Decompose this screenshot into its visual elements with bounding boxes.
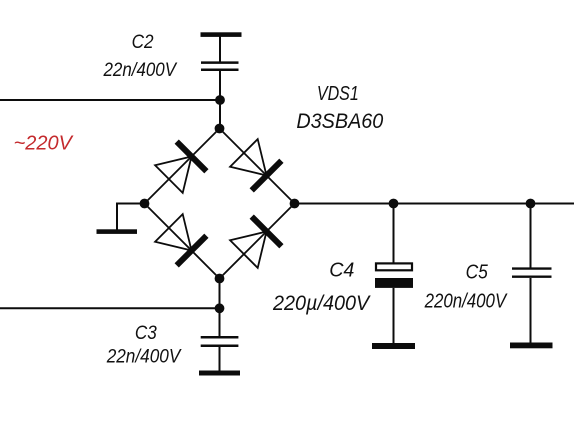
svg-text:C4: C4 bbox=[329, 260, 354, 282]
diode D2 (top vertex to right vertex) bbox=[220, 129, 295, 204]
wire bridge bottom to AC junction bbox=[219, 279, 221, 337]
ground bar (left) bbox=[97, 229, 138, 234]
capacitor C5 bbox=[512, 269, 552, 277]
diode D4 (bottom vertex to right vertex) bbox=[220, 204, 295, 279]
node bridge right vertex bbox=[290, 199, 300, 209]
capacitor C4 (electrolytic, plus plate outline) bbox=[375, 263, 413, 288]
svg-text:C2: C2 bbox=[132, 31, 154, 53]
wire AC bottom line bbox=[0, 307, 220, 309]
svg-text:C3: C3 bbox=[135, 322, 157, 344]
svg-text:22n/400V: 22n/400V bbox=[106, 346, 182, 368]
diode D3 (left vertex to bottom vertex) bbox=[145, 204, 220, 279]
wire left vertex to ground bbox=[117, 204, 145, 231]
wire C4 top lead bbox=[393, 204, 395, 263]
wire AC top line bbox=[0, 99, 220, 101]
node bridge left vertex bbox=[140, 199, 150, 209]
diode D1 (left vertex to top vertex) bbox=[145, 129, 220, 204]
svg-text:220µ/400V: 220µ/400V bbox=[272, 292, 371, 315]
wire C5 top lead bbox=[530, 204, 532, 268]
svg-text:VDS1: VDS1 bbox=[317, 83, 359, 105]
wire C2 bottom lead bbox=[219, 71, 221, 130]
node junction C4 bbox=[389, 199, 399, 209]
ground bar (below C4) bbox=[372, 343, 415, 349]
wire C2 top lead bbox=[219, 36, 221, 62]
node junction C5 bbox=[526, 199, 536, 209]
terminal bar (top, above C2) bbox=[201, 32, 242, 37]
ground bar (below C3) bbox=[199, 371, 240, 376]
svg-text:22n/400V: 22n/400V bbox=[103, 59, 178, 81]
capacitor C3 bbox=[201, 337, 239, 345]
wire C3 bottom lead bbox=[219, 347, 221, 371]
svg-text:220n/400V: 220n/400V bbox=[424, 291, 508, 313]
wire C5 bottom lead bbox=[530, 278, 532, 343]
svg-text:~220V: ~220V bbox=[14, 131, 75, 154]
node bridge top vertex bbox=[215, 124, 225, 134]
capacitor C2 bbox=[201, 63, 239, 70]
svg-text:C5: C5 bbox=[466, 261, 489, 284]
ground bar (below C5) bbox=[510, 343, 553, 349]
svg-text:D3SBA60: D3SBA60 bbox=[296, 110, 383, 133]
node bridge bottom vertex bbox=[215, 274, 225, 284]
wire C4 bottom lead bbox=[393, 288, 395, 344]
node junction top AC bbox=[215, 95, 225, 105]
wire DC positive line bbox=[295, 203, 574, 205]
node junction bottom AC bbox=[215, 303, 225, 313]
